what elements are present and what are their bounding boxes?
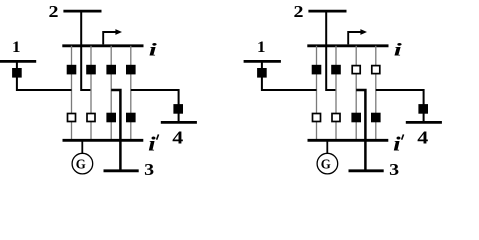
wire: branch 2	[90, 46, 92, 141]
wire: branch 3 (right)	[355, 46, 357, 141]
breaker row2 branch2 (open, right)	[332, 114, 340, 122]
wire: branch 3	[110, 46, 112, 141]
breaker row2 branch4 (closed, right)	[371, 113, 381, 123]
arrow (power flow)	[103, 32, 115, 44]
bus 3 bar (right)	[349, 169, 384, 172]
bus 2 bar	[63, 10, 101, 13]
svg-text:G: G	[76, 158, 86, 173]
bus 1 bar (right)	[244, 60, 281, 63]
breaker row1 branch3 (closed)	[106, 65, 116, 75]
generator G circle (right)	[317, 153, 338, 174]
wire: line 1 lead (right)	[262, 61, 317, 90]
wire: branch 1	[71, 46, 73, 141]
svg-text:4: 4	[417, 127, 428, 147]
bus 4 bar	[161, 121, 197, 124]
svg-text:2: 2	[49, 2, 59, 21]
arrow (power flow, right)	[348, 32, 360, 44]
breaker row2 branch3 (closed, right)	[351, 113, 361, 123]
svg-text:i: i	[149, 40, 157, 60]
svg-text:i: i	[148, 134, 156, 155]
breaker row2 branch3 (closed)	[106, 113, 116, 123]
bus 2 bar (right)	[308, 10, 346, 13]
breaker row2 branch4 (closed)	[126, 113, 136, 123]
breaker row1 branch2 (closed, right)	[331, 65, 341, 75]
breaker row2 branch1 (open)	[68, 114, 76, 122]
bus 4 bar (right)	[406, 121, 442, 124]
breaker row1 branch4 (closed)	[126, 65, 136, 75]
breaker row2 branch1 (open, right)	[313, 114, 321, 122]
breaker line 4 (closed, right)	[418, 104, 428, 114]
wire: line 4 lead	[131, 90, 179, 122]
svg-text:3: 3	[389, 160, 399, 179]
svg-text:G: G	[321, 158, 331, 173]
svg-text:1: 1	[257, 39, 266, 56]
breaker row2 branch2 (open)	[87, 114, 95, 122]
svg-text:3: 3	[144, 160, 154, 179]
generator G circle	[72, 153, 93, 174]
bus i bar (right)	[307, 44, 388, 47]
wire: line 4 lead (right)	[376, 90, 424, 122]
wire: line 2 lead (bus 2 down through bus i to tap)	[81, 11, 91, 90]
svg-text:i: i	[393, 134, 401, 155]
wire: line 3 lead (right)	[356, 90, 365, 171]
breaker row1 branch2 (closed)	[86, 65, 96, 75]
wire: branch 2 (right)	[335, 46, 337, 141]
bus i bar	[62, 44, 143, 47]
svg-text:1: 1	[12, 39, 21, 56]
wire: line 1 lead	[17, 61, 72, 90]
breaker line 1 (closed, right)	[257, 68, 267, 78]
breaker line 4 (closed)	[173, 104, 183, 114]
wire: branch 4	[130, 46, 132, 141]
breaker line 1 (closed)	[12, 68, 22, 78]
breaker row1 branch1 (closed, right)	[312, 65, 322, 75]
breaker row1 branch1 (closed)	[67, 65, 77, 75]
bus 1 bar	[0, 60, 36, 63]
svg-text:2: 2	[294, 2, 304, 21]
bus i' bar	[63, 139, 144, 142]
wire: branch 4 (right)	[375, 46, 377, 141]
svg-text:i: i	[394, 40, 402, 60]
breaker row1 branch4 (open, right)	[372, 66, 380, 74]
bus 3 bar	[104, 169, 139, 172]
wire: branch 1 (right)	[316, 46, 318, 141]
wire: generator lead	[81, 140, 83, 153]
bus i' bar (right)	[308, 139, 389, 142]
wire: generator lead (right)	[326, 140, 328, 153]
wire: line 3 lead (tap to bus 3 through bus i')	[111, 90, 120, 171]
wire: line 2 lead (right)	[326, 11, 336, 90]
svg-text:4: 4	[172, 127, 183, 147]
breaker row1 branch3 (open, right)	[352, 66, 360, 74]
